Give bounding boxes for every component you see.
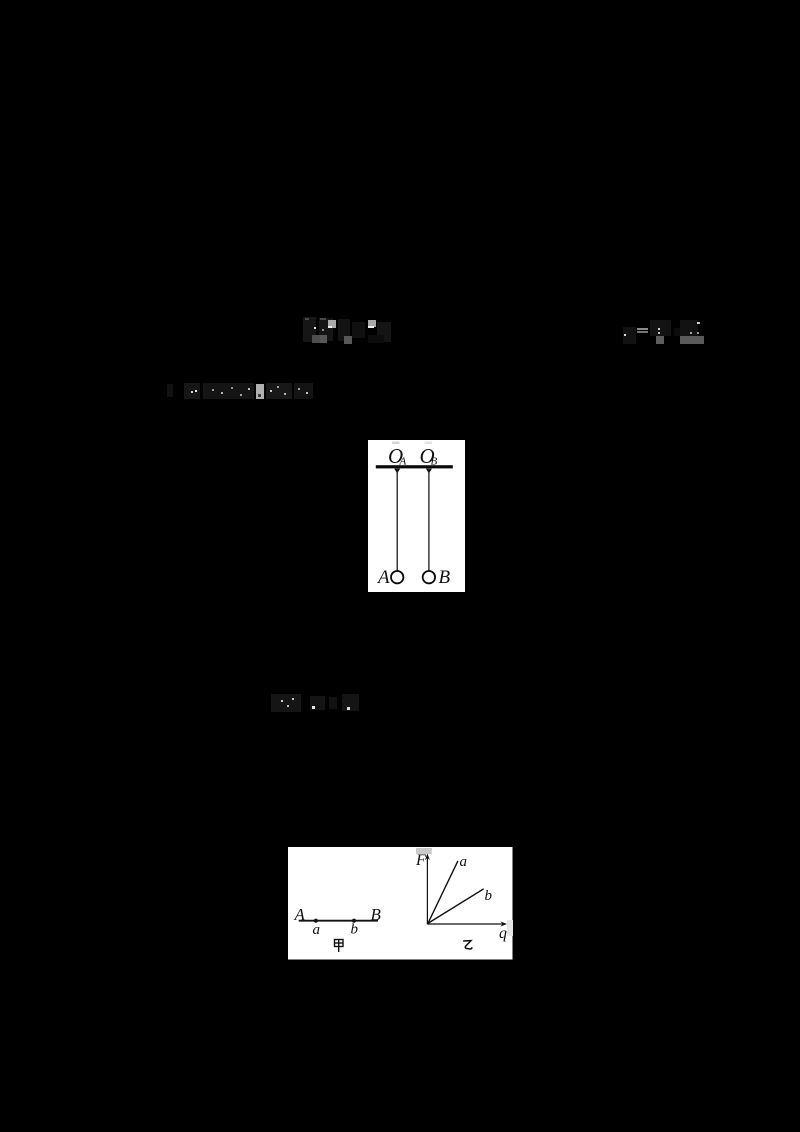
caption yi (乙) — [463, 941, 472, 949]
text line 1: cluster 3 speckle b — [277, 386, 279, 388]
formula row left: gray speckle — [322, 329, 324, 331]
formula row left: T bar light dash 2 — [320, 318, 326, 320]
mid formula: glyph cluster 2 — [310, 696, 325, 710]
gray tab right edge — [507, 920, 513, 936]
text line 1: dark dot in highlight — [258, 394, 261, 397]
q axis — [427, 922, 507, 927]
formula row left: faint mid cluster — [352, 322, 365, 338]
formula row left: white speckle — [314, 327, 316, 329]
faint top dash right — [425, 441, 433, 444]
text line 1: cluster 2 speckle d — [240, 394, 242, 396]
svg-text:B: B — [439, 566, 451, 587]
pendulum figure: white panel — [368, 440, 465, 593]
formula row left: dark under block — [368, 335, 384, 343]
text line 1: glyph cluster 4 — [294, 383, 313, 399]
text line 1: cluster 3 speckle a — [270, 390, 272, 392]
text line 1: cluster 2 speckle b — [221, 392, 223, 394]
formula row right: faint column — [674, 328, 680, 336]
text line 1: cluster 2 speckle a — [212, 389, 214, 391]
line b — [428, 889, 484, 924]
formula row right: white dash — [697, 322, 700, 324]
label q — [499, 925, 507, 942]
point b dot — [352, 919, 356, 923]
rod segment AB — [299, 920, 378, 922]
text line 1: speckle b — [195, 390, 197, 392]
formula row right: white speckle dot — [624, 334, 626, 336]
formula row left: T bar light dash 1 — [305, 318, 309, 320]
ceiling bar — [376, 465, 453, 468]
F axis — [425, 854, 430, 925]
mid formula: glyph cluster 1 — [271, 694, 301, 712]
formula row right: numerator speckle 2 — [697, 332, 699, 334]
line a — [428, 861, 458, 924]
text line 1: cluster 3 speckle c — [284, 393, 286, 395]
bob B — [423, 571, 435, 583]
svg-text:b: b — [485, 888, 493, 904]
string B — [428, 469, 430, 571]
mid formula: speckle 1 — [281, 700, 283, 702]
text line 1: cluster 4 speckle a — [298, 388, 300, 390]
formula row left: radical light square 2 — [368, 320, 376, 327]
label B — [371, 905, 382, 924]
svg-text:a: a — [460, 854, 468, 870]
pivot wedge A — [394, 468, 400, 473]
text line 1: glyph cluster 2 — [203, 383, 254, 399]
svg-text:q: q — [499, 925, 507, 942]
label A — [294, 905, 306, 924]
formula row right: numerator dark block — [680, 320, 698, 336]
mid formula: bright dot 2 — [347, 707, 350, 710]
formula row right: wide denominator gray block — [680, 336, 704, 344]
formula row left: radical notch white 1 — [328, 326, 332, 328]
formula row right: Y glyph block — [650, 320, 671, 336]
formula row left: glyph block 3 — [338, 319, 350, 341]
label b — [351, 922, 359, 938]
svg-text:A: A — [376, 566, 390, 587]
mid formula: glyph cluster 3 — [329, 697, 337, 709]
formula row left: radical light square 1 — [328, 320, 336, 328]
text line 1: glyph cluster 1 — [184, 383, 200, 399]
charge figure: white panel — [288, 847, 513, 960]
point a dot — [314, 919, 318, 923]
text line 1: cluster 2 speckle e — [248, 388, 250, 390]
formula row left: denominator gray square 3 — [344, 336, 352, 344]
formula row right: Y speckle 1 — [658, 328, 660, 330]
svg-text:F: F — [415, 852, 426, 869]
mid formula: glyph cluster 4 — [342, 694, 359, 711]
text line 1: bright highlight block — [256, 384, 264, 399]
formula row left: glyph block 2 — [319, 318, 333, 341]
pivot wedge B — [426, 468, 432, 473]
label b on graph — [485, 888, 493, 904]
label A — [376, 566, 390, 587]
formula row left: denominator gray square 2 — [320, 335, 327, 343]
mid formula: bright dot — [312, 706, 315, 709]
label a — [313, 922, 321, 938]
string A — [396, 469, 398, 571]
formula row right: Y speckle 2 — [658, 332, 660, 334]
text line 1: glyph cluster 3 — [266, 383, 292, 399]
label a on graph — [460, 854, 468, 870]
gray tab above F axis — [416, 848, 432, 854]
label O_A — [388, 444, 407, 468]
svg-text:b: b — [351, 922, 359, 938]
formula row right: leading faint glyph — [623, 327, 636, 344]
label O_B — [420, 444, 438, 468]
text line 1: cluster 4 speckle b — [306, 392, 308, 394]
formula row left: dark glyph block T_A = 2pi sqrt — [303, 317, 316, 342]
mid formula: speckle 3 — [292, 698, 294, 700]
label B — [439, 566, 451, 587]
formula row right: numerator speckle 1 — [690, 332, 692, 334]
mid formula: speckle 2 — [287, 705, 289, 707]
formula row left: radical notch white 2 — [368, 326, 374, 328]
formula row right: denominator gray square — [656, 336, 664, 344]
text line 1: speckle a — [191, 391, 193, 393]
caption jia (甲) — [335, 940, 344, 953]
formula row left: denominator gray square 1 — [312, 335, 320, 343]
svg-text:a: a — [313, 922, 321, 938]
text line 1: cluster 2 speckle c — [231, 387, 233, 389]
text line 1: leading number faint — [167, 384, 173, 397]
bob A — [391, 571, 403, 583]
formula row right: equals top bar — [637, 328, 648, 330]
faint top dash left — [392, 441, 400, 444]
formula row left: tail glyph block — [377, 322, 391, 342]
formula row right: equals bottom bar — [637, 331, 648, 333]
label F — [415, 852, 426, 869]
